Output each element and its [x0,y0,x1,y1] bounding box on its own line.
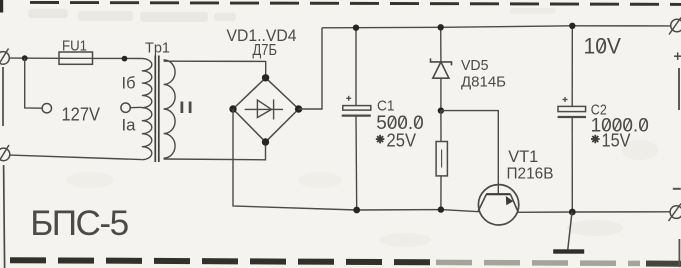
transistor VT1 [478,185,518,225]
node base junction [438,107,444,113]
resistor R1 [440,111,442,142]
label *25V [376,135,385,144]
VT1 emitter arrow [506,196,513,205]
fuse FU1 [59,52,93,64]
wire bridge left to minus rail [233,109,479,212]
ground [568,212,572,249]
junction bridge left [229,105,236,112]
svg-text:FU1: FU1 [62,38,87,54]
svg-text:II: II [178,98,195,117]
wire minus rail right [518,211,670,214]
junction bridge top [262,74,269,81]
svg-text:VT1: VT1 [508,148,538,166]
junction B (primary top) [122,56,128,62]
zener diode VD5 [440,27,442,62]
wire node to VT1 base [441,111,498,195]
scan border bottom dashed [10,260,432,262]
transformer Tp1 primary winding Ia [142,108,152,160]
wire lower-left terminal to primary bottom [10,155,142,160]
junction R1 bottom [438,206,444,212]
svg-text:25V: 25V [387,130,417,150]
wire tap stub [130,106,142,108]
svg-text:Iа: Iа [122,116,137,135]
plus output mark [674,52,681,60]
transformer Tp1 core [154,56,156,163]
svg-text:БПС-5: БПС-5 [30,204,129,243]
transformer Tp1 primary winding Ib [142,59,152,108]
svg-text:Д814Б: Д814Б [461,73,506,90]
svg-text:15V: 15V [602,130,631,150]
wire FU1 to transformer primary top [93,57,142,59]
svg-text:127V: 127V [62,105,101,125]
terminal X2 bottom-left [0,145,10,162]
wire secondary top to bridge [164,61,266,78]
diode symbol inside bridge [245,99,283,119]
right edge fragment line [678,68,680,110]
scan border top dashed [30,2,681,4]
svg-text:Д7Б: Д7Б [253,42,278,59]
label *15V [591,135,600,144]
junction bridge right [295,105,302,112]
wire X1 to FU1 [9,57,59,59]
C1 plus mark [346,96,351,101]
transformer Tp1 secondary winding II [164,60,176,158]
junction VD5 top [438,24,444,30]
capacitor C2 [571,26,573,107]
diode bridge VD1..VD4 [233,78,299,142]
node transformer tap circle [121,103,130,112]
junction C1 bottom [353,207,360,214]
junction bridge bottom [262,138,269,145]
terminal X3 top-right [669,18,681,35]
wire plus rail top [322,26,671,28]
terminal X1 top-left [0,49,9,66]
left frame line [2,67,4,126]
svg-text:П216В: П216В [507,166,554,183]
junction C2 top [569,23,575,29]
C2 plus mark [563,97,568,102]
svg-text:Tp1: Tp1 [145,39,170,56]
capacitor C1 [355,28,357,106]
wire 127V drop [25,58,42,108]
junction C1 top [353,25,359,31]
minus output mark [673,188,681,190]
junction C2 bottom [569,209,576,216]
svg-text:VD5: VD5 [461,57,489,74]
node 127V plug circle [42,104,51,113]
wire secondary bottom to bridge [164,142,266,160]
wire bridge right to plus rail [299,28,322,109]
terminal X4 bottom-right [669,204,681,222]
junction A (input node) [22,55,28,61]
svg-text:Iб: Iб [122,74,136,93]
